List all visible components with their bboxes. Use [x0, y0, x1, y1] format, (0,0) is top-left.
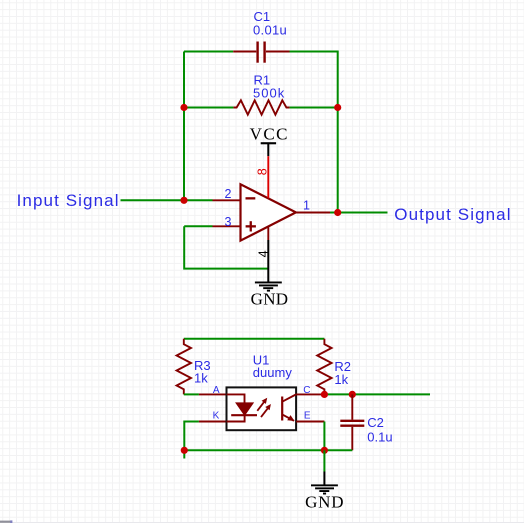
wire: top horizontal left segment — [184, 51, 233, 53]
svg-text:0.1u: 0.1u — [367, 429, 392, 444]
U1 phototransistor base bar — [281, 397, 283, 421]
U1 pin E lead — [296, 421, 324, 423]
op-amp plus input marker — [246, 221, 256, 231]
svg-text:1k: 1k — [194, 371, 208, 386]
svg-text:C2: C2 — [367, 415, 384, 430]
svg-text:GND: GND — [305, 492, 344, 511]
wire: GND2 drop — [323, 450, 325, 471]
wire: K row — [184, 422, 199, 451]
junction: C2 top node — [349, 391, 356, 398]
svg-text:500k: 500k — [253, 86, 285, 101]
wire: R1 row right — [290, 107, 338, 109]
U1 pin K lead — [199, 421, 227, 423]
op-amp pin 1 lead — [296, 212, 330, 214]
wire: stub below left node — [183, 450, 185, 458]
wire: A row — [184, 393, 199, 395]
capacitor C2 — [340, 394, 364, 450]
U1 light arrow 1 — [257, 398, 267, 411]
wire: feedback loop pin3 to pin4 — [184, 226, 268, 268]
junction: collector node — [321, 391, 328, 398]
wire: left vertical bus — [183, 52, 185, 201]
ground GND1 — [251, 240, 289, 309]
svg-text:Output Signal: Output Signal — [394, 205, 511, 224]
svg-text:3: 3 — [225, 215, 232, 229]
power symbol VCC — [250, 124, 289, 156]
resistor R1 — [233, 100, 289, 114]
wire: input to pin 2 — [121, 199, 213, 201]
wire: E row down — [323, 422, 325, 451]
U1 emitter arrowhead — [287, 415, 294, 421]
capacitor C1 — [233, 42, 289, 63]
U1 LED triangle — [236, 403, 253, 415]
svg-text:E: E — [304, 411, 311, 422]
U1 light arrow 2 — [261, 405, 271, 418]
op-amp pin 8 lead (VCC) — [267, 156, 269, 198]
op-amp pin 2 lead — [213, 199, 241, 201]
svg-text:8: 8 — [255, 168, 269, 175]
junction: bottom left node — [181, 447, 188, 454]
ground GND2 — [305, 472, 344, 512]
U1 phototransistor emitter — [282, 414, 294, 420]
U1 LED anode path — [227, 394, 245, 403]
junction: input node — [180, 197, 187, 204]
op-amp U triangle body — [241, 184, 296, 240]
svg-text:VCC: VCC — [250, 124, 289, 143]
scrollbar fragment bottom-left — [0, 521, 11, 523]
op-amp pin 3 lead — [213, 225, 241, 227]
window bottom edge line — [0, 522, 524, 523]
optocoupler U1 body box — [227, 387, 297, 430]
junction: left R1 node — [180, 104, 187, 111]
wire: C row to the right — [324, 393, 430, 395]
svg-text:duumy: duumy — [253, 365, 293, 380]
U1 pin C lead — [296, 393, 324, 395]
wire: bottom rail — [184, 449, 352, 451]
op-amp minus input marker — [246, 197, 256, 199]
resistor R3 — [177, 339, 191, 395]
U1 phototransistor collector — [282, 394, 296, 401]
svg-text:A: A — [213, 385, 220, 396]
svg-text:2: 2 — [225, 187, 232, 201]
wire: top horizontal right + right vertical bus — [290, 52, 338, 213]
U1 LED cathode bar — [231, 414, 257, 416]
U1 LED cathode path — [227, 415, 245, 421]
junction: bottom right node — [321, 447, 328, 454]
svg-text:C: C — [303, 385, 310, 396]
svg-text:0.01u: 0.01u — [253, 22, 287, 37]
wire: lower top rail — [184, 338, 325, 340]
op-amp pin 4 lead — [267, 227, 269, 240]
svg-text:Input Signal: Input Signal — [17, 191, 120, 210]
wire: pin 3 stub — [184, 225, 212, 227]
wire: R1 row left — [184, 107, 233, 109]
svg-text:GND: GND — [251, 290, 289, 309]
svg-text:K: K — [213, 411, 220, 422]
junction: output node — [334, 209, 341, 216]
junction: right R1 node — [334, 104, 341, 111]
svg-text:1: 1 — [303, 199, 310, 213]
resistor R2 — [317, 339, 331, 395]
U1 pin A lead — [199, 393, 227, 395]
svg-text:1k: 1k — [334, 372, 348, 387]
wire: output — [330, 212, 388, 214]
